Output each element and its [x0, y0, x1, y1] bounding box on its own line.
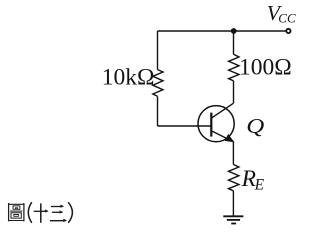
transistor Q circle [198, 106, 234, 142]
wire right branch upper [233, 31, 235, 54]
caption figure 13 glyph TU (outer box) [8, 203, 25, 221]
label RE [241, 166, 265, 193]
transistor Q emitter diagonal [211, 131, 233, 142]
label VCC [267, 1, 296, 26]
wire base horizontal [158, 125, 212, 127]
wire left branch upper [157, 31, 159, 70]
terminal VCC open circle [286, 29, 290, 33]
transistor Q collector diagonal [211, 103, 233, 118]
transistor Q base bar [210, 113, 212, 137]
resistor R1 10k zigzag [153, 70, 163, 97]
wire left branch lower [157, 96, 159, 126]
node junction dot [231, 28, 237, 34]
caption glyph SHI (ten) [34, 203, 49, 222]
svg-text:10kΩ: 10kΩ [102, 65, 155, 91]
wire collector vertical [233, 81, 235, 103]
caption close paren [68, 202, 72, 223]
resistor RE zigzag [229, 165, 239, 191]
wire emitter vertical [232, 142, 234, 165]
wire ground vertical [232, 191, 234, 217]
wire top horizontal VCC rail [158, 30, 286, 32]
caption open paren [28, 202, 32, 223]
transistor Q emitter arrowhead [225, 134, 234, 142]
svg-text:E: E [254, 176, 265, 193]
svg-text:CC: CC [278, 11, 296, 26]
svg-text:Q: Q [246, 114, 265, 138]
resistor R2 100 ohm zigzag [229, 54, 239, 81]
svg-text:100Ω: 100Ω [239, 54, 292, 80]
caption glyph SAN (three) [50, 205, 67, 222]
ground symbol [223, 216, 243, 223]
